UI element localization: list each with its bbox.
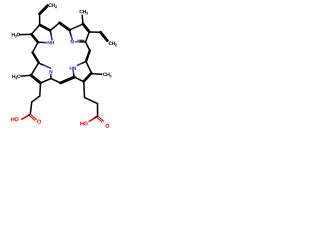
ring A double bT-aR	[40, 25, 51, 31]
ring B bond N-aL black	[70, 30, 72, 36]
chain C c2	[85, 98, 98, 104]
label H3C ring D	[12, 75, 20, 80]
acid R C=O line2	[97, 118, 102, 122]
label N ring B	[71, 40, 74, 43]
ring D bond aT-bL	[31, 63, 39, 76]
ring B bond N-aR black	[80, 41, 86, 43]
acid L C-O black	[27, 114, 30, 116]
meso bottom bond	[51, 79, 61, 83]
label HO left	[11, 117, 18, 121]
ring C bond N-aT black	[81, 62, 86, 64]
acid R C=O line1	[98, 116, 104, 121]
meso top double	[60, 23, 70, 30]
methyl D bond	[21, 74, 30, 77]
chain D c1	[39, 83, 42, 96]
vinyl A stem	[39, 14, 41, 25]
meso left double	[33, 52, 39, 62]
acid L C-O red	[22, 116, 27, 119]
ring D bond N-aT black	[39, 63, 44, 65]
label O left	[37, 120, 41, 124]
chain C c1	[83, 82, 86, 98]
ring A bond aR-N blue	[50, 36, 53, 40]
label HN ring C	[70, 66, 76, 69]
label N ring D	[49, 70, 52, 73]
label O right	[105, 124, 109, 128]
ring A bond aR-N black	[50, 31, 51, 36]
label CH3 ring B	[80, 10, 88, 15]
ring C bond N-aBL blue	[72, 70, 74, 74]
methyl B stem	[81, 15, 84, 24]
ring B bond bR-aR	[86, 32, 90, 42]
ring B bond N-aL blue	[71, 36, 72, 40]
chain C c3	[97, 104, 99, 116]
meso top bond	[50, 23, 59, 31]
label CH2 right	[109, 42, 117, 47]
methyl C bond	[92, 73, 102, 76]
ring B double tick N-aR blue	[78, 39, 81, 41]
ring C bond aT-bR	[86, 62, 92, 74]
meso left bond	[33, 42, 39, 52]
ring B double bT-bR	[83, 24, 89, 32]
acid R C-O black	[94, 116, 98, 118]
chain D c3	[30, 102, 31, 114]
ring C double bR-bB	[84, 73, 92, 82]
chain D c2	[32, 96, 40, 102]
label CH3 ring C	[103, 73, 111, 78]
ring A double bL-aL	[32, 34, 39, 42]
ring C bond N-aT blue	[77, 64, 81, 66]
ring B bond aL-bT	[70, 24, 84, 30]
meso right bond	[86, 42, 90, 51]
ring A bond aL-N black	[38, 41, 44, 43]
ring C bond N-aBL black	[73, 74, 76, 77]
ring C bond bB-aBL	[74, 77, 83, 82]
label HO right	[80, 122, 87, 126]
label NH ring A	[48, 41, 54, 44]
label CH2 top	[49, 3, 57, 8]
meso right double	[86, 51, 90, 62]
vinyl B bond	[90, 31, 101, 33]
ring D bond N-aR black	[50, 77, 52, 79]
ring D double bL-bB	[31, 75, 41, 83]
methyl A bond	[20, 33, 31, 35]
vinyl B double	[101, 32, 108, 40]
label H3C ring A	[12, 33, 20, 38]
ring D bond bB-aR	[41, 79, 52, 83]
acid R C-O red	[89, 118, 94, 121]
ring D bond N-aR blue	[50, 74, 52, 76]
ring D bond N-aT blue	[44, 65, 51, 68]
ring B bond N-aR blue	[75, 41, 80, 43]
ring B double tick N-aR black	[81, 39, 85, 41]
meso bottom double	[61, 77, 75, 83]
acid L C=O line2	[30, 116, 35, 120]
ring A bond aL-N blue	[44, 42, 47, 44]
acid L C=O line1	[30, 114, 36, 120]
vinyl A double	[40, 6, 48, 14]
ring A bond bL-bT	[32, 25, 40, 35]
